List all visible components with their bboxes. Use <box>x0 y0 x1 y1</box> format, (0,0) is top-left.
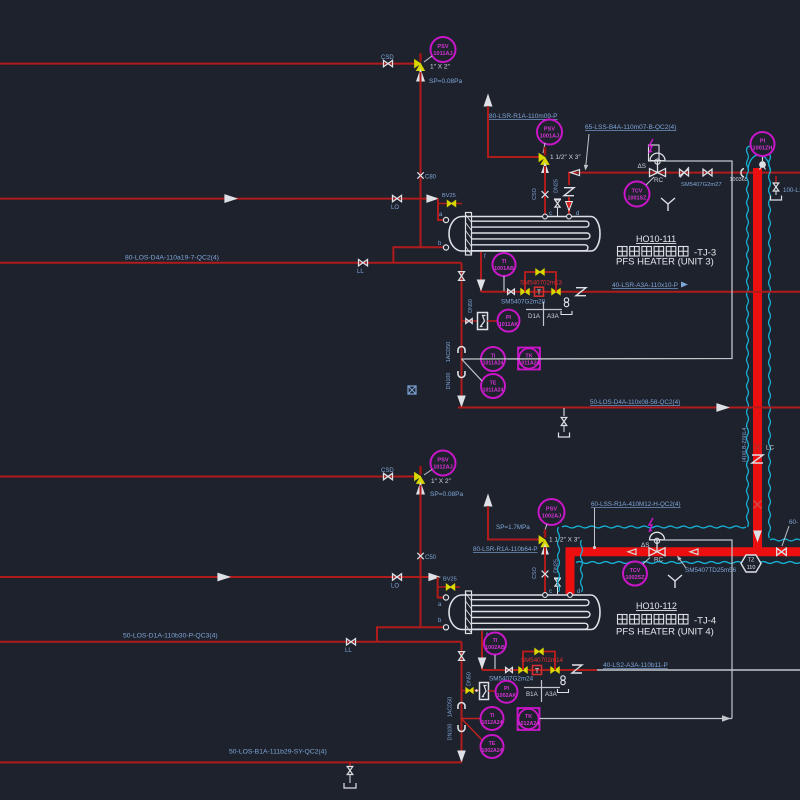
valve YV5 <box>551 667 559 673</box>
svg-text:CSO: CSO <box>532 188 538 200</box>
svg-text:1 1/2″ X 3″: 1 1/2″ X 3″ <box>550 154 581 161</box>
wire L1 feed header <box>0 63 421 65</box>
wire to PI-1011AK <box>488 320 498 322</box>
svg-text:RC: RC <box>654 557 664 564</box>
nozzle b1 <box>443 245 448 250</box>
positioner box <box>649 145 660 161</box>
arrow steam into shell <box>566 202 573 211</box>
vent arrow RV3 <box>417 483 425 494</box>
break Z-riser <box>752 455 763 463</box>
svg-text:c: c <box>549 589 552 595</box>
svg-text:PSV: PSV <box>437 44 448 50</box>
valve LL-1 <box>359 260 368 266</box>
valve LO-1 <box>393 195 402 201</box>
valve X2 riser <box>754 501 762 509</box>
dual valve symbol <box>564 298 568 302</box>
svg-text:TI: TI <box>493 638 498 644</box>
wire HX2 bottom outlet <box>481 631 483 670</box>
steam trap T1 <box>535 287 544 296</box>
svg-text:SM540702m14: SM540702m14 <box>521 657 564 664</box>
instrument TK-1012A24 <box>518 708 540 730</box>
valve at riser top <box>762 156 764 161</box>
wire bottom header <box>0 761 462 763</box>
svg-text:C50: C50 <box>425 555 437 561</box>
svg-text:SP=0.08Pa: SP=0.08Pa <box>429 78 462 85</box>
capped vent on shell <box>557 208 559 216</box>
instrument PI-1001ZH <box>751 132 775 156</box>
relief valve RV3 (angle) <box>419 466 422 475</box>
sample cooler S2 <box>480 683 489 700</box>
svg-text:HO10-111: HO10-111 <box>636 234 676 244</box>
svg-text:LO: LO <box>391 584 399 590</box>
fitting C80 <box>417 172 423 178</box>
svg-text:60-: 60- <box>789 519 798 526</box>
valve V-gate2 <box>703 169 712 176</box>
valve LL-2 <box>347 639 356 645</box>
arrow under RV2 <box>542 164 548 173</box>
wire outlet header <box>481 291 800 293</box>
svg-text:LC: LC <box>766 445 774 452</box>
svg-text:RC: RC <box>654 177 664 184</box>
arrow under RV4 <box>542 545 548 554</box>
svg-text:-TJ-4: -TJ-4 <box>694 616 716 627</box>
svg-text:SM5407G2m27: SM5407G2m27 <box>681 182 722 188</box>
svg-text:SM5407TD25m56: SM5407TD25m56 <box>685 567 737 574</box>
svg-text:BV25: BV25 <box>442 193 456 199</box>
thermowell link TE <box>462 359 483 381</box>
break Z3 <box>572 665 582 673</box>
reducer 2 <box>506 667 513 672</box>
svg-text:PI: PI <box>760 138 766 144</box>
svg-text:1011AK: 1011AK <box>499 322 519 328</box>
clip c3 <box>458 703 465 710</box>
wire L6 branch to nozzle b2 <box>377 627 446 642</box>
class break D1A/A3A <box>526 309 562 311</box>
relief valve RV2 (angle) <box>544 147 547 156</box>
svg-text:TI: TI <box>490 713 495 719</box>
svg-text:1012A24: 1012A24 <box>518 721 540 727</box>
svg-text:80-LOS-D4A-110a19-7-QC2(4): 80-LOS-D4A-110a19-7-QC2(4) <box>125 255 219 262</box>
valve YV6 bypass <box>535 649 543 655</box>
steam riser thick <box>753 168 762 549</box>
valve CSO-2 <box>542 571 549 578</box>
thermowell link TE2 <box>462 719 483 741</box>
vent arrow 80-LSR <box>484 95 492 106</box>
valve LC <box>754 443 762 451</box>
wire drain drop 2 <box>461 642 463 763</box>
svg-text:PI: PI <box>504 686 510 692</box>
svg-text:A3A: A3A <box>545 691 558 698</box>
wire PSV-1002AJ vent line <box>488 506 540 540</box>
flow arrow L2 <box>225 195 236 202</box>
valve YV2 <box>552 289 560 295</box>
control valve TCV-1001SZ body <box>650 169 666 177</box>
leader 60 <box>782 526 789 546</box>
wire steam line to HX1 <box>569 173 800 185</box>
nozzle a1 <box>443 217 448 222</box>
nozzle c2 <box>543 593 548 598</box>
svg-text:1 1/2″ X 3″: 1 1/2″ X 3″ <box>549 537 580 544</box>
svg-text:1001ZH: 1001ZH <box>753 145 773 151</box>
sample stub 2 <box>475 689 478 692</box>
wire L3 branch to nozzle b <box>393 247 446 263</box>
svg-text:TCV: TCV <box>630 568 641 574</box>
flow arrow L5 end <box>429 574 439 581</box>
instrument TE-1011A24 <box>481 374 505 398</box>
fail arrow 2 <box>649 518 653 532</box>
svg-text:CSD: CSD <box>381 468 394 474</box>
svg-text:1002AJ: 1002AJ <box>542 513 562 519</box>
heat exchanger HO10-112 <box>449 595 600 630</box>
nozzle d1 <box>567 214 572 219</box>
svg-text:1012A24: 1012A24 <box>481 720 502 726</box>
wire L6 feed header <box>0 641 462 643</box>
signal wire TK to TCV <box>462 161 733 359</box>
clip c1 <box>458 347 465 353</box>
svg-text:50-LOS-D4A-110x08-58-QC2(4): 50-LOS-D4A-110x08-58-QC2(4) <box>590 399 680 406</box>
svg-text:d: d <box>576 211 579 217</box>
tracing arch top <box>748 155 770 170</box>
flow arrow L5 <box>218 573 229 580</box>
svg-text:1011A24: 1011A24 <box>518 360 540 366</box>
tracing drop right <box>581 540 583 592</box>
flow arrow L2 end <box>427 195 437 202</box>
svg-text:PFS HEATER (UNIT 3): PFS HEATER (UNIT 3) <box>616 257 714 268</box>
svg-text:B1A: B1A <box>526 691 539 698</box>
svg-text:TZ: TZ <box>748 558 755 564</box>
leader 60-LSS <box>594 508 596 546</box>
svg-text:c: c <box>549 211 552 217</box>
valve BV25-1 vent <box>438 203 462 205</box>
hex utility tag <box>741 555 761 572</box>
svg-text:TK: TK <box>525 714 532 720</box>
svg-text:50-LOS-D1A-110b30-P-QC3(4): 50-LOS-D1A-110b30-P-QC3(4) <box>123 633 218 640</box>
svg-text:(4)XLB-Z(9)L4: (4)XLB-Z(9)L4 <box>742 428 748 462</box>
svg-text:T: T <box>537 290 542 297</box>
class break B1A/A3A <box>524 687 560 689</box>
arrow outlet down <box>477 280 484 290</box>
svg-text:T: T <box>535 668 540 675</box>
svg-text:1001AB: 1001AB <box>494 266 514 272</box>
valve BV25-2 vent <box>438 586 460 588</box>
tracing below <box>576 562 741 564</box>
sample stub <box>462 320 478 322</box>
tracing below right <box>760 562 800 564</box>
flow arrow header <box>717 404 728 411</box>
svg-text:1011A24: 1011A24 <box>483 360 504 366</box>
wire drain drop x461 <box>461 263 463 408</box>
svg-text:100-L1: 100-L1 <box>783 187 800 194</box>
wire 50-LOS header <box>458 407 800 409</box>
svg-text:LL: LL <box>357 269 364 275</box>
svg-text:65-LSS-B4A-110m07-B-QC2(4): 65-LSS-B4A-110m07-B-QC2(4) <box>585 124 676 131</box>
steam supply thick <box>570 552 800 594</box>
tracing top <box>748 146 770 148</box>
svg-text:CSD: CSD <box>381 55 394 61</box>
svg-text:PSV: PSV <box>546 506 557 512</box>
utility arrow <box>681 282 688 288</box>
svg-text:1001SZ: 1001SZ <box>628 195 648 201</box>
svg-text:D1A: D1A <box>528 313 541 320</box>
svg-text:1002AK: 1002AK <box>497 693 517 699</box>
clip c2 <box>458 371 465 378</box>
wire to PI-1002AK <box>489 690 497 692</box>
svg-text:C80: C80 <box>425 175 437 181</box>
PSV PSV-1012AJ <box>431 451 456 476</box>
nozzle a2 <box>443 595 448 600</box>
nozzle c1 <box>543 214 548 219</box>
control valve TCV-1002SZ body <box>649 548 665 556</box>
svg-text:PFS HEATER (UNIT 4): PFS HEATER (UNIT 4) <box>616 627 714 638</box>
PSV PSV-1011AJ <box>431 37 456 62</box>
valve X-drain1 <box>459 272 465 281</box>
svg-text:ΔS: ΔS <box>638 163 646 170</box>
drain funnel Y2 <box>668 575 682 588</box>
bypass loop 2 <box>523 652 555 671</box>
instrument TI-1002AB <box>484 633 506 655</box>
instrument TE-1002A24 <box>481 735 504 758</box>
svg-text:BV25: BV25 <box>443 577 457 583</box>
tracing drop left <box>558 527 560 592</box>
svg-text:1002AB: 1002AB <box>485 645 505 651</box>
valve LO-2 <box>393 574 402 580</box>
tracing above right <box>770 539 800 541</box>
instrument TK-1011A24 <box>518 348 540 370</box>
instrument TI-1001AB <box>493 253 516 276</box>
break Z1 <box>564 188 574 196</box>
svg-text:DN50: DN50 <box>467 672 473 686</box>
reducer <box>508 289 515 294</box>
wire L2 feed header <box>0 198 438 200</box>
relief valve RV4 (angle) <box>544 529 547 538</box>
bypass loop <box>525 272 556 292</box>
svg-text:PI: PI <box>506 315 512 321</box>
capped vent on shell 2 <box>557 587 559 594</box>
svg-text:60-LSS-R1A-410M12-H-QC2(4): 60-LSS-R1A-410M12-H-QC2(4) <box>591 501 681 508</box>
svg-text:1002A24: 1002A24 <box>481 748 502 754</box>
svg-text:A3A: A3A <box>547 313 560 320</box>
arrow riser down <box>754 531 761 541</box>
svg-text:SM5407G2m28: SM5407G2m28 <box>501 299 546 306</box>
wire steam drop after Z <box>568 197 570 217</box>
drain stub header <box>563 408 565 416</box>
instrument PI-1002AK <box>496 681 518 703</box>
drain funnel Y1 <box>661 198 675 211</box>
heat exchanger HO10-111 <box>449 217 600 252</box>
signal wire TCV2 <box>661 540 732 719</box>
svg-text:1ACD50: 1ACD50 <box>448 697 454 717</box>
steam trap T2 <box>533 666 542 675</box>
instrument TI-1012A24 <box>481 707 504 730</box>
instrument TCV-1002SZ tag <box>623 562 647 586</box>
svg-text:1″ X 2″: 1″ X 2″ <box>431 478 451 485</box>
tracing above <box>562 526 746 528</box>
vent arrow 80-LSR lower <box>484 495 492 506</box>
valve CSD-1 <box>384 60 393 66</box>
valve YV4 <box>519 667 527 673</box>
svg-text:DN50: DN50 <box>468 299 474 313</box>
svg-text:40-LS2-A3A-110b11-P: 40-LS2-A3A-110b11-P <box>603 662 668 669</box>
dual valve symbol 2 <box>561 676 565 680</box>
svg-text:DN25: DN25 <box>554 179 560 193</box>
svg-text:TCV: TCV <box>632 188 643 194</box>
leader 65-LSS <box>586 134 589 166</box>
arrow drain down 2 <box>458 751 465 761</box>
wire L5 feed header <box>0 576 438 578</box>
wire PSV3 riser <box>420 485 422 627</box>
svg-text:TE: TE <box>489 741 496 747</box>
svg-text:PSV: PSV <box>437 457 448 463</box>
svg-text:HO10-112: HO10-112 <box>636 601 677 611</box>
svg-text:DN100: DN100 <box>448 724 454 741</box>
svg-text:DN100: DN100 <box>446 373 452 390</box>
fail action arrow <box>649 139 653 153</box>
wire HX1 bottom outlet <box>480 252 482 292</box>
sample cooler S1 <box>478 313 488 330</box>
instrument PI-1011AK <box>498 310 520 332</box>
svg-text:PSV: PSV <box>544 126 555 132</box>
svg-text:1ACD50: 1ACD50 <box>446 342 452 362</box>
wire PSV-1001AJ vent line <box>488 106 541 157</box>
svg-text:SP=0.08Pa: SP=0.08Pa <box>430 491 463 498</box>
arrow drain down <box>458 396 465 406</box>
flow arrow steam left2 <box>690 549 698 555</box>
valve block 60 <box>777 548 787 555</box>
svg-text:CSO: CSO <box>532 567 538 579</box>
valve V-globe SM27 <box>680 169 689 176</box>
svg-text:1″ X 2″: 1″ X 2″ <box>430 64 450 71</box>
tracing envelope right <box>769 147 771 538</box>
wire outlet header 2 red <box>482 669 597 671</box>
title CJK 1 <box>618 247 628 257</box>
nozzle d2 <box>568 593 573 598</box>
riser vent stub <box>775 176 777 183</box>
svg-text:ΔS: ΔS <box>641 542 649 549</box>
svg-text:110: 110 <box>747 565 756 571</box>
wire L5 drop to nozzle a2 <box>438 577 445 598</box>
thermowell link TI2 <box>462 718 482 720</box>
wire L3 feed header <box>0 262 462 264</box>
svg-text:1001AJ: 1001AJ <box>540 133 560 139</box>
break Z2 <box>576 288 586 296</box>
leader SM56 <box>679 558 687 569</box>
svg-text:1002SZ: 1002SZ <box>626 575 646 581</box>
svg-text:TI: TI <box>502 259 507 265</box>
clip c4 <box>458 725 465 732</box>
svg-text:TE: TE <box>490 380 497 386</box>
svg-text:80-LSR-R1A-110b64-P: 80-LSR-R1A-110b64-P <box>473 546 538 553</box>
drain valve yellow <box>462 690 480 692</box>
svg-text:LL: LL <box>345 648 352 654</box>
valve X-drain2 <box>459 652 465 661</box>
flow arrow steam left1 <box>628 549 636 555</box>
valve CSD-2 <box>384 473 393 479</box>
svg-text:d: d <box>577 589 580 595</box>
pipe cap C <box>741 169 744 178</box>
vent arrow to atmosphere <box>417 70 425 81</box>
PSV PSV-1002AJ <box>539 499 565 525</box>
wire L2 drop to nozzle a <box>438 199 445 220</box>
svg-text:1011A24: 1011A24 <box>483 387 504 393</box>
fitting C50 <box>417 553 423 559</box>
svg-text:SP=1.7MPa: SP=1.7MPa <box>496 524 530 531</box>
svg-text:SM540702m13: SM540702m13 <box>520 280 563 287</box>
drain stub bottom <box>349 762 351 766</box>
arrow outlet down 2 <box>478 658 485 668</box>
wire L4 feed header <box>0 476 421 478</box>
nozzle b2 <box>443 625 448 630</box>
PSV PSV-1001AJ <box>537 120 562 145</box>
flow arrow steam <box>571 170 580 176</box>
wire outlet header 2 white <box>597 669 800 671</box>
svg-text:1011AJ: 1011AJ <box>433 51 452 57</box>
svg-text:LO: LO <box>391 205 399 211</box>
svg-text:40-LSR-A3A-110x10-P: 40-LSR-A3A-110x10-P <box>612 282 678 289</box>
instrument TI-1011A24 <box>481 347 505 371</box>
wire PSV1 riser <box>420 72 422 247</box>
svg-text:50-LOS-B1A-111b29-SY-QC2(4): 50-LOS-B1A-111b29-SY-QC2(4) <box>229 749 327 756</box>
wire CSO drop <box>544 166 546 217</box>
valve YV3 bypass <box>536 269 544 275</box>
relief valve RV1 (angle) <box>419 53 422 62</box>
valve CSO-1 <box>542 191 549 198</box>
svg-text:1012AJ: 1012AJ <box>433 464 453 470</box>
blind symbol <box>408 386 416 394</box>
tracing envelope left <box>747 147 749 527</box>
wire CSO drop 2 <box>544 547 546 595</box>
instrument TCV-1001SZ tag <box>625 182 650 207</box>
valve YV1 <box>521 289 529 295</box>
signal wire TK2 <box>540 718 733 720</box>
title CJK 2 <box>618 615 628 625</box>
